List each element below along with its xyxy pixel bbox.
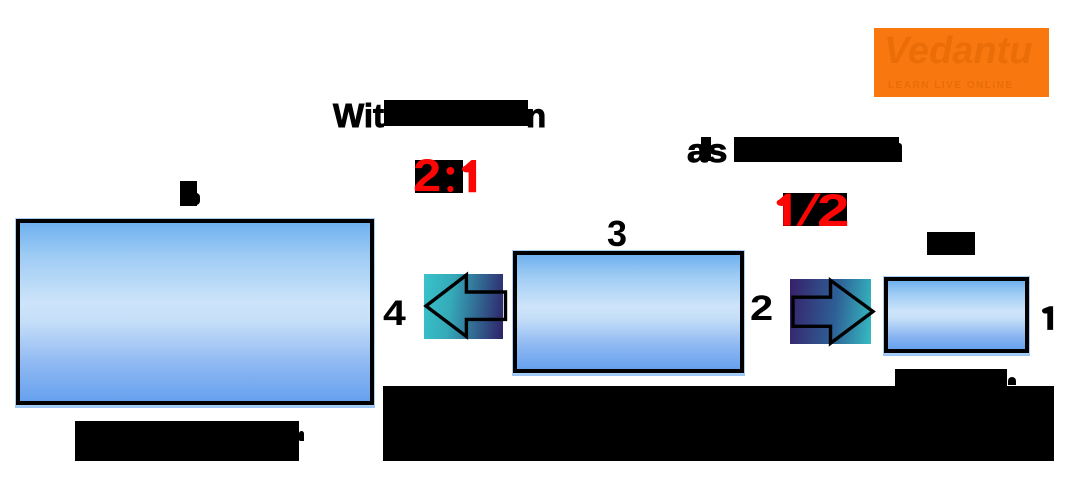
heading 2 stem (701, 137, 711, 161)
heading 1 redaction box (384, 100, 528, 126)
left arrow gradient square (424, 274, 503, 339)
bottom-left redaction box (75, 421, 299, 461)
small box above small rectangle (redacted 1.5) (927, 232, 975, 255)
label 3 (607, 216, 627, 252)
redaction box under small rectangle (895, 369, 1007, 387)
label 1 (1040, 304, 1056, 332)
big bottom redaction box (383, 386, 1054, 461)
fraction 1/2 red text (774, 193, 824, 227)
fraction 1/2 redaction box (783, 193, 847, 226)
heading 2 n-bump (898, 143, 902, 162)
letter tail right of box (1008, 377, 1016, 385)
middle rectangle (513, 251, 744, 373)
left arrow glyph (424, 274, 508, 339)
small rectangle (884, 277, 1029, 353)
heading 2 text "as ...n" (687, 134, 727, 167)
label 2 (750, 291, 773, 326)
right arrow gradient square (790, 279, 871, 344)
big rectangle (16, 219, 374, 405)
label 4 (383, 296, 406, 331)
ratio 2:1 redaction box (415, 160, 463, 193)
heading 1 text "Wit...n" (333, 99, 384, 132)
orange logo block (874, 28, 1049, 97)
heading 2 redaction box (734, 137, 899, 162)
ratio 2:1 red text (413, 153, 441, 198)
letter tail (299, 431, 304, 441)
label 6 (redacted blob) (180, 181, 197, 206)
right arrow glyph (790, 279, 875, 344)
